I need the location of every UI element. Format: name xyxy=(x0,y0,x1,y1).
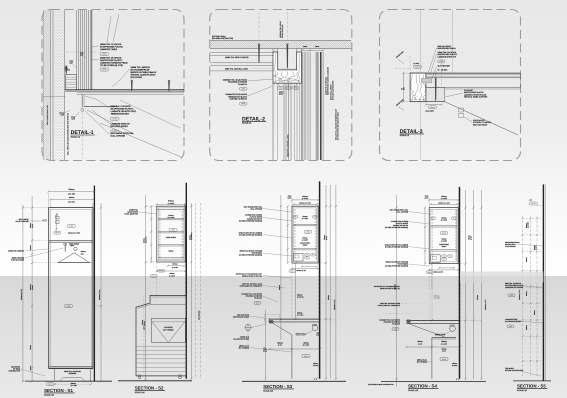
detail-1 plywood bundle texture xyxy=(79,10,85,90)
detail-3 solid wood edge block xyxy=(410,73,426,102)
svg-text:500mm: 500mm xyxy=(168,200,174,203)
detail-3 small detail boxes lower xyxy=(459,108,464,112)
detail-1 mirror screw symbols xyxy=(131,81,132,91)
svg-text:(1'-8 5/8"): (1'-8 5/8") xyxy=(441,241,448,243)
svg-text:SECTION - S1: SECTION - S1 xyxy=(44,388,73,393)
section-s1 bottom dim row xyxy=(55,383,91,385)
section-s2 cabinet top double line xyxy=(157,209,185,211)
section-s3 right dim chains xyxy=(325,185,327,379)
section-s4 floor line xyxy=(381,381,486,383)
detail-2 screw centerlines above band xyxy=(258,12,260,41)
section-s4 mid horizontal dashed leaders xyxy=(385,303,429,305)
detail-2 extra verticals below channel xyxy=(294,83,296,160)
section-s1 door inner label xyxy=(65,305,73,308)
svg-text:19MM THK. PLYWOODW/APPROVED PL: 19MM THK. PLYWOODW/APPROVED PLASTICLAMIN… xyxy=(438,51,458,58)
section-s4 shelf pin holes xyxy=(431,210,433,212)
section-s4 upper cabinet carcass xyxy=(429,208,458,264)
svg-text:SECTION - S5: SECTION - S5 xyxy=(517,384,546,389)
section-s1 wardrobe carcass xyxy=(49,208,93,369)
section-s3 pipe floor hatch xyxy=(314,378,317,380)
section-s3 dashed drop lines to counter xyxy=(291,263,293,319)
detail-2 U-channel solid wood xyxy=(273,52,301,83)
svg-text:450mm: 450mm xyxy=(526,324,528,330)
section-s4 spray hole circle xyxy=(450,326,456,332)
svg-text:WD3: WD3 xyxy=(241,102,245,105)
svg-text:SCALE 1:1: SCALE 1:1 xyxy=(242,122,251,125)
svg-text:SCALE 1:10: SCALE 1:10 xyxy=(135,391,145,394)
section-s4 dashed drop lines xyxy=(428,264,430,321)
section-s2 top dim xyxy=(157,203,185,205)
section-s2 counter feet xyxy=(138,376,141,379)
svg-text:LP01: LP01 xyxy=(102,53,106,56)
section-s2 40mm tag xyxy=(158,269,165,272)
svg-text:NOMINATE SOLID WOODTERMINATION: NOMINATE SOLID WOODTERMINATION BLOCKPAIN… xyxy=(225,93,247,101)
section-s4 counter top xyxy=(406,320,460,322)
section-s2 floor line xyxy=(118,380,192,382)
section-s3 bottom dims xyxy=(302,266,317,268)
svg-text:SCALE 1:2: SCALE 1:2 xyxy=(71,135,80,138)
detail-2 right plywood bundle xyxy=(301,52,303,160)
detail-1 blocking ladder xyxy=(65,75,76,90)
detail-1 screw at blocking xyxy=(66,67,67,75)
detail-2 screw left xyxy=(258,45,259,63)
section-s3 left dim chains xyxy=(287,206,289,263)
svg-text:994mm: 994mm xyxy=(69,188,75,191)
svg-text:(1'-8 5/8"): (1'-8 5/8") xyxy=(302,239,309,241)
section-s5 dimension ticks and rungs xyxy=(523,217,544,219)
section-s1 coat hanger xyxy=(74,247,77,250)
svg-text:E1: E1 xyxy=(306,254,308,256)
svg-text:16MM THK. NATURAL CORK: 16MM THK. NATURAL CORK xyxy=(287,134,290,157)
section-s1 top cabinet shelf xyxy=(49,239,93,241)
detail-3 slip feather grey insert xyxy=(421,78,432,83)
svg-text:2H: 2H xyxy=(295,216,297,218)
detail-1 plywood panel vertical lines xyxy=(76,10,78,90)
section-s5 top tag 50mm xyxy=(530,202,538,205)
section-s4 pipe floor hatch xyxy=(456,378,459,380)
detail-2 gap tags below channel xyxy=(278,87,285,90)
svg-text:E2: E2 xyxy=(443,258,445,260)
sheet background lower band xyxy=(0,276,567,398)
section-s3 shelves xyxy=(293,223,316,225)
detail-1 counter front edge xyxy=(81,94,83,107)
section-s2 right dim chains xyxy=(190,203,192,379)
section-s4 mirror zone tint xyxy=(407,290,459,320)
svg-text:(1'-1 3/8"): (1'-1 3/8") xyxy=(169,275,176,277)
detail-1 panel border xyxy=(42,10,184,161)
section-s4 top dims xyxy=(429,199,458,201)
detail-3 vertical reference lines xyxy=(419,10,421,160)
section-s2 shelf pin holes left xyxy=(159,211,161,213)
detail-2 cork bundle below channel xyxy=(283,83,285,160)
section-s2 upper cabinet carcass xyxy=(157,206,185,262)
section-s1 chrome pole xyxy=(64,244,66,252)
section-s1 extension dashed lines xyxy=(48,193,50,208)
svg-text:C3D2: C3D2 xyxy=(304,355,308,358)
section-s2 counter slats xyxy=(136,345,186,347)
svg-text:E1: E1 xyxy=(443,255,445,257)
detail-3 counter slab bottom line xyxy=(426,86,521,88)
svg-text:SECTION - S4: SECTION - S4 xyxy=(408,384,437,389)
detail-3 hatched support block xyxy=(426,87,445,101)
section-s3 shelf pin holes xyxy=(294,209,296,211)
detail-2 cork layer hatch band xyxy=(210,62,273,65)
section-s3 dashed box at counter left end xyxy=(265,315,280,322)
svg-text:LP01: LP01 xyxy=(113,117,117,120)
section-s2 counter top second lines xyxy=(138,304,151,308)
section-s3 counter left vertical dim xyxy=(265,310,267,379)
detail-1 existing wall diagonal hatch strip xyxy=(43,10,51,160)
section-s2 counter recess panel with V brace xyxy=(152,318,186,342)
svg-text:900mm: 900mm xyxy=(534,309,536,315)
section-s3 counter top xyxy=(269,318,320,320)
section-s1 left dim chain outer xyxy=(22,205,24,381)
section-s5 floor line xyxy=(513,380,551,382)
svg-text:LP01: LP01 xyxy=(102,68,106,71)
section-s1 left dim horizontal connectors xyxy=(23,207,49,209)
svg-text:(1'-8 7/8"): (1'-8 7/8") xyxy=(172,267,179,269)
svg-text:12MM THK. MRP PLYWOOD: 12MM THK. MRP PLYWOOD xyxy=(225,56,249,59)
detail-2 existing wall hatch band xyxy=(210,41,351,49)
section-s4 shelves xyxy=(431,225,457,227)
svg-text:SCALE 1:10: SCALE 1:10 xyxy=(517,389,527,392)
detail-3 long diagonal support xyxy=(445,102,518,135)
section-s2 left dim chain outer xyxy=(145,195,147,381)
section-s2 bottom cabinet dims xyxy=(168,265,185,267)
svg-text:2H: 2H xyxy=(314,216,316,218)
svg-text:SECTION - S3: SECTION - S3 xyxy=(263,384,292,389)
section-s4 bottom dims xyxy=(439,267,454,269)
svg-text:WALL FINISH BY MAIN CONTRACTOR: WALL FINISH BY MAIN CONTRACTOR THK GYPSU… xyxy=(66,113,69,155)
section-s3 floor drain symbol xyxy=(245,325,251,331)
detail-3 counter slab top edge xyxy=(410,72,520,74)
section-s4 undercabinet light detail xyxy=(431,255,441,262)
detail-3 bottom dim 40mm xyxy=(426,104,442,106)
section-s3 spray hole xyxy=(312,325,318,331)
section-s3 undercabinet light detail xyxy=(293,254,303,262)
svg-text:(6" APF): (6" APF) xyxy=(452,365,458,367)
svg-text:2H: 2H xyxy=(432,218,434,220)
section-s1 hook symbol and leader xyxy=(42,219,47,222)
section-s1 top dimension lines xyxy=(49,191,95,193)
detail-3 screw through slab xyxy=(435,78,436,101)
detail-2 U-channel arm connectors to band xyxy=(272,49,274,53)
svg-text:SCALE 1:10: SCALE 1:10 xyxy=(408,389,418,392)
detail-3 left dim 50mm tag xyxy=(414,65,422,68)
section-s2 counter centerline dashed xyxy=(143,295,145,378)
detail-2 left face line down xyxy=(272,83,274,160)
svg-text:SCALE 1:2: SCALE 1:2 xyxy=(400,134,409,137)
detail-1 gypsum board strip xyxy=(53,10,64,160)
section-s3 upper cabinet carcass xyxy=(292,206,318,263)
svg-text:450mm: 450mm xyxy=(526,256,528,262)
detail-1 counter apron bottom bar xyxy=(84,106,117,108)
svg-text:WD3: WD3 xyxy=(241,87,245,90)
section-s4 wall line xyxy=(459,187,461,379)
svg-text:'D' - (30 A/F): 'D' - (30 A/F) xyxy=(438,69,448,72)
section-s1 hinge blocks top xyxy=(56,216,60,219)
section-s2 dashed drops to counter xyxy=(156,262,158,299)
svg-text:C3D2: C3D2 xyxy=(442,358,446,361)
detail-1 countertop layers xyxy=(65,89,184,91)
detail-3 panel border xyxy=(380,10,521,161)
section-s4 left dim chains xyxy=(424,208,426,264)
section-s2 shelves xyxy=(158,217,184,219)
detail-2 left layer stack lines xyxy=(210,52,273,54)
svg-text:SCALE 1:10: SCALE 1:10 xyxy=(44,393,54,396)
section-s4 under counter diagonal and shelf xyxy=(408,323,446,337)
section-s1 base plinth xyxy=(54,368,56,381)
section-s3 top dims xyxy=(292,199,318,201)
section-s1 inside top dims xyxy=(54,231,61,234)
detail-2 right dark finish line xyxy=(320,52,322,160)
section-s5 highlighted label band xyxy=(460,272,543,283)
detail-1 air gap line pair xyxy=(52,10,54,160)
svg-text:SLIP FEATHER: SLIP FEATHER xyxy=(438,65,451,68)
section-s1 cabinet bottom band xyxy=(49,366,93,368)
section-s2 left dim chain inner xyxy=(150,206,152,262)
detail-2 panel border xyxy=(210,10,352,161)
detail-1 gap flag 2mm left xyxy=(73,65,77,69)
section-s1 right dim chain xyxy=(100,203,102,381)
section-s3 wall line xyxy=(319,181,321,378)
svg-text:(6" APF): (6" APF) xyxy=(313,365,319,367)
svg-text:COUNTER: COUNTER xyxy=(164,326,173,329)
svg-text:SCALE 1:10: SCALE 1:10 xyxy=(263,389,273,392)
detail-3 bottom edge line xyxy=(410,101,445,103)
sheet background upper gradient xyxy=(0,0,567,276)
detail-3 left vertical dim xyxy=(402,73,404,102)
svg-text:(20"): (20") xyxy=(81,253,85,255)
svg-text:SECTION - S2: SECTION - S2 xyxy=(135,386,164,391)
detail-2 screw center xyxy=(287,45,288,69)
section-s2 shelf pin holes right xyxy=(181,211,183,213)
svg-text:450mm: 450mm xyxy=(526,290,528,296)
detail-1 leader to screws from plywood note xyxy=(107,16,111,43)
detail-1 centerline dashed xyxy=(81,94,83,158)
detail-2 bundle top dim ticks xyxy=(302,49,323,51)
svg-text:250mm: 250mm xyxy=(30,244,32,250)
svg-text:2H: 2H xyxy=(453,218,455,220)
section-s3 basin trap diagonal and pipe xyxy=(271,322,292,335)
section-s1 wall line xyxy=(93,186,95,382)
svg-text:6MM THK. NATURAL CORK: 6MM THK. NATURAL CORK xyxy=(225,67,249,70)
svg-text:(1'-0"): (1'-0") xyxy=(442,351,446,353)
section-s2 counter unit outline xyxy=(136,296,187,376)
svg-text:E2: E2 xyxy=(306,257,308,259)
section-s1 left dim chain inner xyxy=(31,196,33,381)
section-s3 floor line xyxy=(242,380,346,382)
section-s5 wall line xyxy=(542,184,544,381)
section-s5 dimension chain lines xyxy=(522,216,524,378)
section-s4 right dim chains xyxy=(465,190,467,379)
detail-1 gap flag 2mm upper right xyxy=(84,56,87,59)
detail-3 counter slab laminate lines xyxy=(426,74,521,76)
detail-1 long diagonal leaders lower right xyxy=(100,123,181,157)
detail-3 dashed setout lines xyxy=(409,56,411,73)
section-s2 wall line xyxy=(185,183,187,379)
section-s1 floor line xyxy=(25,380,112,382)
